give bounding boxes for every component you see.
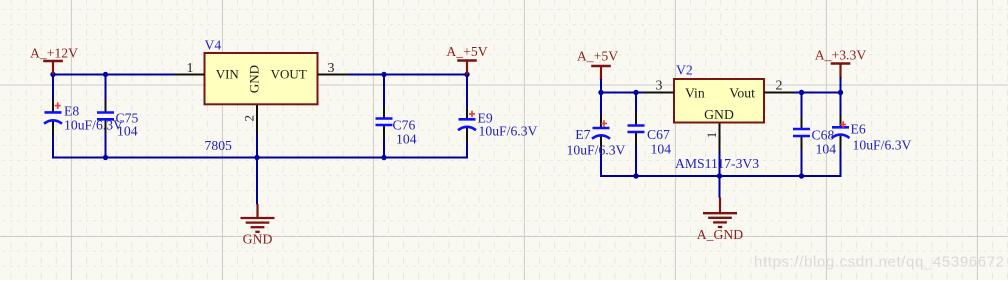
svg-text:V2: V2 — [676, 63, 693, 78]
svg-text:VOUT: VOUT — [271, 66, 307, 81]
svg-text:A_+12V: A_+12V — [30, 46, 78, 61]
svg-text:10uF/6.3V: 10uF/6.3V — [853, 138, 912, 153]
svg-text:104: 104 — [396, 132, 417, 147]
svg-text:VIN: VIN — [216, 66, 240, 81]
svg-text:1: 1 — [704, 132, 719, 139]
svg-text:7805: 7805 — [205, 138, 233, 153]
svg-text:C67: C67 — [647, 127, 670, 142]
svg-text:GND: GND — [243, 232, 273, 247]
svg-text:https://blog.csdn.net/qq_45396: https://blog.csdn.net/qq_45396672 — [754, 254, 1005, 271]
svg-text:E6: E6 — [851, 122, 866, 137]
svg-text:GND: GND — [247, 65, 262, 93]
svg-text:GND: GND — [704, 107, 734, 122]
svg-text:A_+5V: A_+5V — [577, 49, 618, 64]
svg-text:E7: E7 — [575, 127, 590, 142]
svg-text:3: 3 — [328, 61, 335, 76]
svg-text:1: 1 — [187, 61, 194, 76]
svg-text:10uF/6.3V: 10uF/6.3V — [567, 142, 626, 157]
svg-text:E8: E8 — [64, 104, 79, 119]
svg-text:3: 3 — [656, 79, 663, 94]
svg-text:V4: V4 — [205, 38, 222, 53]
svg-text:2: 2 — [776, 79, 783, 94]
svg-text:104: 104 — [651, 142, 672, 157]
svg-text:C76: C76 — [393, 118, 416, 133]
svg-text:C68: C68 — [812, 128, 835, 143]
svg-text:104: 104 — [117, 124, 138, 139]
svg-text:10uF/6.3V: 10uF/6.3V — [479, 124, 538, 139]
svg-text:104: 104 — [816, 142, 837, 157]
svg-text:A_GND: A_GND — [697, 227, 743, 242]
svg-text:A_+5V: A_+5V — [446, 44, 487, 59]
svg-text:10uF/6.3V: 10uF/6.3V — [64, 118, 123, 133]
svg-text:Vout: Vout — [729, 85, 755, 100]
svg-text:AMS1117-3V3: AMS1117-3V3 — [675, 156, 759, 171]
svg-text:2: 2 — [241, 115, 256, 122]
svg-text:A_+3.3V: A_+3.3V — [815, 48, 867, 63]
svg-text:Vin: Vin — [685, 85, 705, 100]
